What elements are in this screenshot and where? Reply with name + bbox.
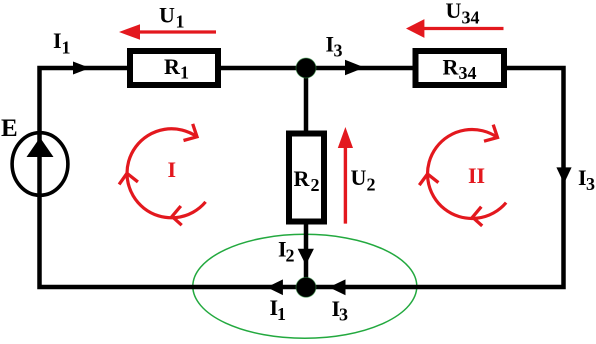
svg-text:2: 2 — [367, 174, 376, 194]
svg-text:I: I — [168, 157, 177, 182]
svg-text:1: 1 — [62, 37, 71, 57]
svg-text:1: 1 — [277, 304, 286, 324]
svg-text:E: E — [1, 115, 18, 142]
svg-text:3: 3 — [339, 304, 348, 324]
svg-text:3: 3 — [334, 41, 343, 61]
svg-text:II: II — [468, 163, 485, 188]
svg-text:1: 1 — [180, 63, 189, 83]
svg-text:1: 1 — [176, 12, 185, 32]
svg-text:2: 2 — [311, 175, 320, 195]
svg-text:3: 3 — [586, 174, 595, 194]
svg-text:U: U — [351, 165, 367, 190]
svg-text:34: 34 — [462, 8, 480, 28]
svg-text:U: U — [159, 3, 175, 28]
svg-text:2: 2 — [286, 245, 295, 265]
svg-text:R: R — [164, 54, 181, 79]
svg-text:I: I — [53, 28, 62, 53]
svg-text:R: R — [294, 166, 311, 191]
svg-text:R: R — [443, 54, 460, 79]
svg-text:U: U — [446, 0, 462, 23]
svg-text:34: 34 — [459, 63, 477, 83]
